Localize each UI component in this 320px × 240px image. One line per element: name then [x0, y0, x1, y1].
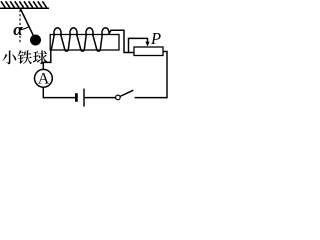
dashed vertical reference line — [19, 10, 21, 43]
pendulum string — [20, 9, 35, 41]
rheostat R1 body — [134, 47, 163, 56]
label 小铁球 — [2, 50, 47, 64]
battery cell — [76, 89, 84, 107]
solenoid coil — [51, 28, 134, 53]
wiper arrow — [145, 38, 149, 47]
angle arc — [20, 27, 29, 30]
ceiling support — [0, 1, 49, 8]
wire: switch to rheostat right terminal — [135, 52, 167, 98]
solenoid core — [50, 35, 119, 51]
wire: ammeter to battery — [43, 87, 75, 97]
ammeter A1 — [35, 69, 53, 87]
wire: coil left lead to ammeter — [43, 50, 51, 69]
switch S1 — [116, 90, 134, 100]
wire: junction to wiper — [129, 38, 148, 52]
wire: battery to switch — [85, 97, 116, 99]
svg-text:α: α — [13, 20, 23, 39]
iron ball — [30, 35, 41, 46]
svg-text:A: A — [38, 71, 50, 88]
svg-text:P: P — [150, 29, 161, 48]
